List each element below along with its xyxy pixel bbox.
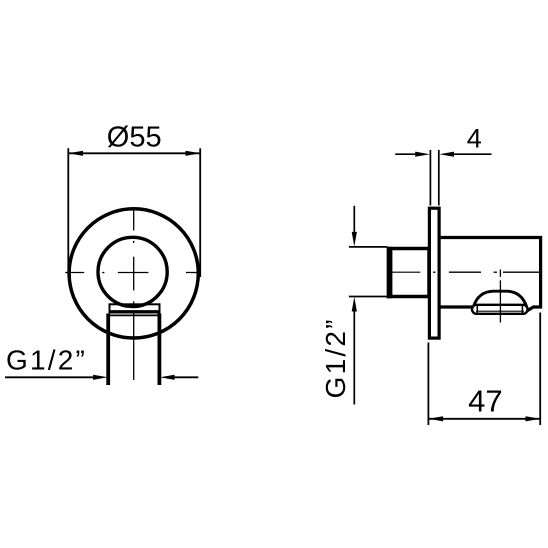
spout dome <box>474 291 527 306</box>
dimension 4 (plate thickness) <box>395 150 491 206</box>
vertical centerline <box>133 209 135 380</box>
dimension G1/2 (front) <box>5 376 198 378</box>
vertical dimension G1/2 (side) <box>349 206 387 405</box>
svg-text:47: 47 <box>468 383 502 418</box>
horizontal centerline <box>65 272 200 274</box>
svg-text:4: 4 <box>467 124 482 154</box>
horizontal centerline (side) <box>389 271 540 273</box>
outer circle (flange) <box>69 209 198 338</box>
dimension Ø55 <box>68 148 200 277</box>
inner circle (holder ring) <box>98 237 167 306</box>
body (side) <box>440 238 540 311</box>
wall plate (side) <box>429 208 439 338</box>
spout brim <box>472 305 528 314</box>
svg-text:Ø55: Ø55 <box>107 122 162 154</box>
svg-text:G1/2”: G1/2” <box>6 345 87 376</box>
retaining bracket under inner ring <box>110 304 160 312</box>
threaded stub (side) <box>387 247 429 298</box>
svg-text:G1/2”: G1/2” <box>320 317 351 398</box>
pipe (front view) <box>107 314 161 386</box>
vertical centerline through spout <box>499 270 501 323</box>
dimension 47 <box>428 313 540 426</box>
